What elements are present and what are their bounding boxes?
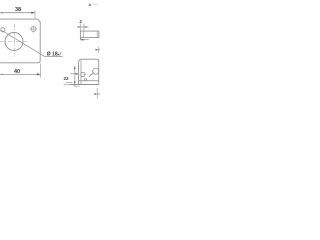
- thickness ext line right: [83, 24, 85, 32]
- svg-text:A: A: [89, 3, 92, 7]
- right cropped dimension arrow (upper): [97, 47, 99, 53]
- dimension 40 line: [0, 73, 41, 75]
- leader shoulder / underline: [45, 55, 63, 57]
- side view left outer wall: [78, 63, 80, 85]
- plate bottom edge: [0, 62, 38, 64]
- section rect right edge: [98, 31, 100, 37]
- plate right edge: [39, 22, 41, 61]
- section rect top edge: [80, 30, 99, 32]
- small hole top-right v centerline: [33, 25, 35, 33]
- section arrow: [92, 3, 98, 5]
- dimension 38 left arrow stub: [0, 12, 3, 14]
- small hole in side view: [81, 72, 85, 76]
- side view top edge: [82, 58, 97, 60]
- thickness left arrow: [78, 26, 81, 28]
- small tick 2 under 22 text: [64, 84, 71, 86]
- small arrow pointing at wall: [70, 73, 78, 75]
- small dim under rect: [80, 39, 88, 41]
- dim 22 bottom arrow: [74, 82, 76, 85]
- dimension 38 extension line: [34, 10, 36, 18]
- section rect bottom edge: [80, 37, 99, 39]
- side view top-right corner arc: [97, 59, 99, 61]
- side view top-left corner arc: [79, 59, 83, 63]
- side view bottom edge: [70, 84, 99, 86]
- right cropped dim ext (lower): [96, 88, 98, 99]
- pin circle right: [93, 68, 99, 74]
- thickness ext line left: [79, 24, 81, 32]
- dashed centerline through hole: [76, 74, 94, 76]
- dimension 40 right arrow: [37, 73, 41, 75]
- svg-text:2: 2: [79, 19, 82, 24]
- large circle: [5, 33, 23, 51]
- leader line to Ø18 text: [2, 30, 45, 56]
- right cropped dim shaft (upper): [98, 49, 100, 51]
- thickness dim line: [78, 26, 89, 28]
- leader to pin circle: [89, 72, 94, 77]
- small hole top-left: [1, 28, 5, 32]
- dim 22 top arrow: [74, 66, 76, 69]
- tiny label blob near leader tail: [85, 78, 87, 80]
- dimension 40 extension line: [40, 64, 42, 78]
- dimension 40 left arrow stub: [0, 74, 3, 76]
- side view left inner wall: [80, 61, 82, 85]
- plate fillet bottom-right: [38, 61, 40, 63]
- vertical centerline: [14, 24, 16, 57]
- svg-text:22: 22: [64, 76, 70, 81]
- plate chamfer top-right: [38, 19, 41, 22]
- svg-text:Ø 18ₕ⁷: Ø 18ₕ⁷: [47, 52, 62, 58]
- section rect inner right edge: [96, 31, 98, 37]
- small arrow head at wall: [76, 73, 79, 75]
- dimension 38 line: [0, 12, 35, 14]
- dim 22 vertical line: [74, 66, 76, 86]
- dimension 38 right arrow: [31, 12, 35, 14]
- small tick under 22 text: [66, 82, 73, 84]
- small dim arrow: [80, 39, 83, 41]
- right cropped dim shaft (lower): [97, 93, 100, 95]
- section rect inner vertical: [83, 31, 85, 37]
- svg-text:38: 38: [15, 7, 21, 13]
- horizontal centerline: [0, 41, 28, 43]
- thickness right arrow: [84, 26, 87, 28]
- small hole top-right: [31, 27, 36, 32]
- right cropped dim arrowhead (upper): [96, 49, 99, 51]
- right cropped dim arrowhead (lower): [94, 93, 97, 95]
- side view interior line: [79, 80, 99, 82]
- section rect left edge: [79, 31, 81, 40]
- dim 22 top ext tick: [74, 85, 80, 87]
- small hole top-right h centerline: [30, 28, 38, 30]
- plate top edge: [0, 18, 38, 20]
- side view right outer edge: [98, 61, 100, 85]
